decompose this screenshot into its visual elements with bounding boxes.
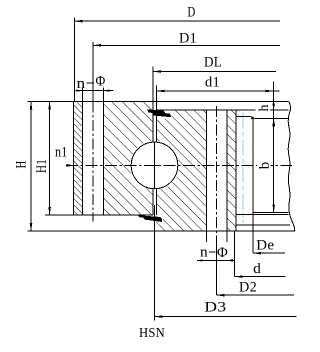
gear root line bbox=[235, 110, 237, 231]
seam below ball right bbox=[156, 189, 158, 215]
svg-text:b: b bbox=[257, 161, 273, 169]
svg-text:H1: H1 bbox=[34, 159, 50, 173]
H1 dim line bbox=[49, 102, 51, 216]
D2 dim line bbox=[217, 294, 294, 296]
D ext vertical bbox=[73, 18, 75, 102]
svg-text:d: d bbox=[253, 261, 261, 277]
hatch outer ring left part bbox=[157, 110, 207, 231]
teeth bottom double line bbox=[236, 214, 288, 216]
b arrows bbox=[272, 119, 275, 127]
hatch outer ring right part bbox=[227, 110, 236, 231]
inner hole left wall bbox=[82, 102, 84, 216]
inner hole right wall bbox=[103, 102, 105, 216]
gear pitch line cyan bbox=[242, 113, 244, 224]
outer ring hole left wall bbox=[205, 110, 207, 231]
hatch inner ring left wall bbox=[74, 102, 83, 216]
line G lower structure top bbox=[236, 224, 290, 226]
D1 ext vertical bbox=[92, 42, 94, 102]
bottom long line bbox=[28, 230, 295, 232]
svg-text:d1: d1 bbox=[205, 75, 220, 91]
seam right line (d1 ext) bbox=[156, 86, 158, 143]
seam below ball left bbox=[152, 189, 154, 215]
D2 extension solid bbox=[216, 236, 218, 295]
svg-text:n: n bbox=[77, 76, 86, 92]
teeth top chamfer bbox=[251, 117, 253, 119]
DL dim line bbox=[153, 71, 276, 73]
bottom n-phi dim line bbox=[197, 259, 235, 261]
svg-text:D2: D2 bbox=[239, 279, 257, 295]
D1 dim line bbox=[93, 44, 280, 46]
bottom n-phi ext lines bbox=[205, 231, 207, 242]
h label bbox=[256, 103, 271, 111]
outer ring top line B bbox=[157, 109, 289, 111]
De dim line bbox=[253, 252, 285, 254]
outer hole centerline dashdot bbox=[216, 106, 218, 236]
svg-text:DL: DL bbox=[204, 55, 222, 71]
svg-text:Φ: Φ bbox=[96, 74, 106, 90]
svg-text:Φ: Φ bbox=[217, 245, 228, 261]
teeth top edge bbox=[236, 116, 251, 118]
b label bbox=[257, 160, 271, 171]
D3 dim line bbox=[155, 316, 297, 318]
D dim line bbox=[74, 20, 280, 22]
svg-text:D3: D3 bbox=[204, 300, 226, 316]
seam left line (DL ext) bbox=[152, 67, 154, 143]
top seal black wedge bbox=[157, 111, 172, 119]
n1 arrow bbox=[67, 164, 74, 167]
ball bbox=[131, 142, 178, 189]
ball center cross bbox=[151, 161, 159, 169]
svg-text:De: De bbox=[256, 237, 274, 253]
ball raceway punch bbox=[130, 141, 179, 190]
d dim line bbox=[235, 276, 286, 278]
pinion top face bbox=[251, 118, 289, 120]
bottom seal black wedge bbox=[157, 212, 163, 223]
ball vertical centerline bbox=[154, 142, 156, 188]
H top ext line bbox=[28, 101, 74, 103]
horizontal centerline n1 row bbox=[66, 164, 292, 166]
outer ring hole right wall bbox=[226, 110, 228, 231]
h arrows bbox=[272, 104, 275, 111]
d ext vertical bbox=[234, 231, 236, 276]
inner hole centerline bbox=[92, 102, 94, 222]
svg-text:D1: D1 bbox=[179, 30, 197, 46]
inner ring bottom bbox=[74, 214, 154, 216]
dim vertical V (d1/h/b) bbox=[273, 82, 275, 213]
H1 bottom ext line bbox=[45, 214, 74, 216]
H dim line bbox=[30, 102, 32, 232]
hatch inner ring main bbox=[104, 102, 154, 216]
svg-text:D: D bbox=[188, 5, 196, 21]
body top line A bbox=[74, 101, 289, 103]
inner ring left edge bbox=[73, 102, 75, 216]
svg-text:n: n bbox=[200, 245, 208, 261]
svg-text:H: H bbox=[13, 161, 29, 169]
svg-text:n1: n1 bbox=[55, 145, 68, 161]
wavy break line bbox=[288, 102, 295, 232]
pinion bottom face bbox=[253, 211, 289, 213]
svg-text:h: h bbox=[257, 104, 272, 111]
D3 extension vertical bbox=[154, 205, 156, 321]
svg-text:HSN: HSN bbox=[139, 326, 165, 341]
gear tip line / De ext bbox=[252, 117, 254, 254]
n-Phi top dim bbox=[76, 90, 114, 92]
d1 dim line bbox=[157, 90, 280, 92]
